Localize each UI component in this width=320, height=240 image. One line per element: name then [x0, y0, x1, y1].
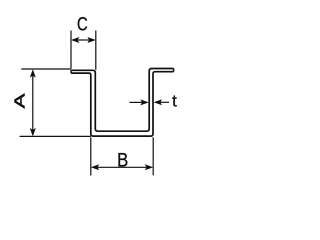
t arrowhead right [154, 99, 162, 105]
svg-text:A: A [11, 93, 27, 108]
C arrowhead right [87, 37, 95, 43]
B arrowhead right [145, 164, 153, 170]
A arrowhead bottom [30, 128, 36, 136]
B dimension line [97, 166, 147, 168]
profile inner contour [71, 72, 174, 136]
t leader shaft right [160, 101, 169, 103]
svg-text:B: B [117, 148, 128, 171]
C dimension line [77, 39, 90, 41]
C arrowhead left [71, 37, 79, 43]
C extension line right [95, 31, 97, 70]
B extension line left [90, 137, 92, 175]
A dimension line [32, 75, 34, 131]
right flange end cap [173, 69, 175, 72]
left flange end cap [70, 70, 72, 73]
A extension line bottom [20, 135, 91, 137]
svg-text:t: t [172, 92, 177, 111]
A extension line top [21, 68, 71, 70]
A arrowhead top [30, 69, 36, 77]
t arrowhead left [140, 99, 148, 105]
svg-text:C: C [77, 14, 88, 35]
B extension line right [152, 137, 154, 175]
profile outer contour [71, 69, 174, 132]
t leader shaft left [130, 101, 143, 103]
C extension line left [70, 31, 72, 69]
B arrowhead left [91, 164, 99, 170]
